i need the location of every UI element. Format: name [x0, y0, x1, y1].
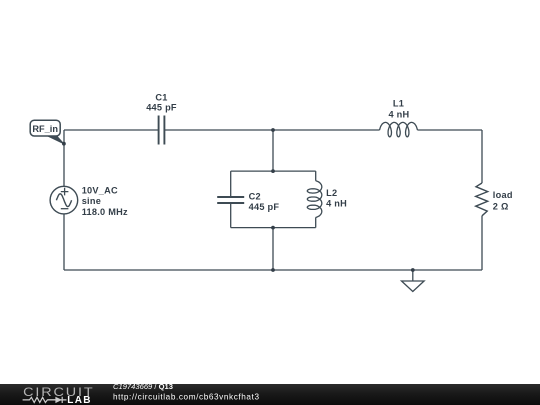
labels — [82, 92, 513, 217]
wire tank right — [315, 171, 317, 228]
junction tank top node — [271, 169, 275, 173]
junction ground node — [411, 268, 415, 272]
wire mid vertical top — [272, 130, 274, 171]
inductor L2 — [307, 181, 322, 218]
junction RF_in node — [62, 142, 66, 146]
wire top right — [417, 129, 482, 131]
wire top left — [64, 129, 159, 131]
junction top-mid node — [271, 128, 275, 132]
node RF_in flag — [30, 120, 64, 144]
source V1 circle — [50, 186, 78, 214]
svg-text:C19743669 / Q13: C19743669 / Q13 — [113, 382, 173, 391]
wire top mid — [164, 129, 379, 131]
logo waveform — [23, 397, 67, 403]
capacitor C2 — [217, 197, 244, 203]
svg-text:http://circuitlab.com/cb63vnkc: http://circuitlab.com/cb63vnkcfhat3 — [113, 392, 260, 401]
wire mid vertical bottom — [272, 228, 274, 270]
resistor load — [476, 183, 488, 216]
capacitor C1 — [159, 116, 165, 145]
footer bar — [0, 384, 540, 405]
ground — [402, 270, 425, 292]
junction bottom-mid node — [271, 268, 275, 272]
source minus — [61, 208, 69, 210]
inductor L1 — [380, 122, 418, 136]
junction tank bottom node — [271, 226, 275, 230]
wire right vertical — [481, 130, 483, 270]
wire tank left — [230, 171, 232, 228]
wire left vertical — [63, 130, 65, 270]
source sine — [56, 194, 71, 207]
source plus — [61, 188, 69, 196]
wire tank bottom — [231, 227, 316, 229]
svg-text:LAB: LAB — [67, 395, 91, 405]
wire bottom — [64, 269, 482, 271]
wire tank top — [231, 170, 316, 172]
